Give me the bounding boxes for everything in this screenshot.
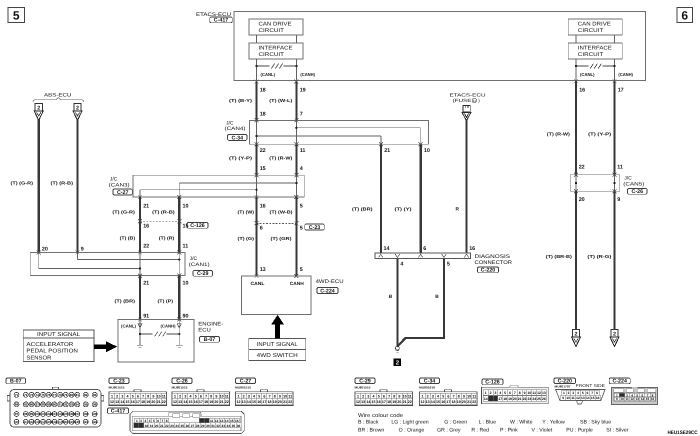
svg-text:11: 11 (473, 99, 477, 103)
svg-text:15: 15 (591, 396, 595, 400)
ABS-ECU bracket (33, 98, 84, 102)
svg-text:21: 21 (283, 400, 287, 404)
svg-text:11: 11 (210, 419, 214, 423)
svg-text:98: 98 (24, 412, 28, 416)
svg-text:15: 15 (260, 166, 266, 172)
svg-text:11: 11 (532, 391, 536, 395)
svg-text:21: 21 (518, 397, 522, 401)
svg-text:22: 22 (260, 148, 266, 154)
svg-text:1: 1 (563, 391, 565, 395)
svg-text:76: 76 (47, 393, 51, 397)
svg-text:6: 6 (681, 8, 688, 22)
wire CAN4 to CAN3 left (255, 144, 257, 175)
pin 19 ETACS (294, 80, 305, 94)
svg-text:15: 15 (183, 224, 189, 230)
svg-text:106: 106 (69, 412, 74, 416)
svg-text:R : Red: R : Red (471, 428, 489, 434)
svg-text:1: 1 (357, 394, 359, 398)
4WD switch arrow (271, 315, 284, 339)
page marker 5 (8, 8, 25, 23)
svg-text:18: 18 (452, 400, 456, 404)
svg-text:105: 105 (63, 412, 68, 416)
svg-text:9: 9 (616, 397, 618, 401)
svg-text:11: 11 (162, 394, 166, 398)
svg-text:2: 2 (116, 394, 118, 398)
svg-text:13: 13 (426, 400, 430, 404)
input signal accelerator box (23, 330, 94, 361)
node CANH engine (161, 324, 182, 329)
svg-text:115: 115 (46, 420, 51, 424)
svg-text:33: 33 (221, 424, 225, 428)
svg-text:8: 8 (274, 394, 276, 398)
drawing number (668, 430, 698, 436)
wire label (T)(G) (238, 236, 255, 241)
wire CAN4 pin21 to diagnosis pin14 (380, 144, 382, 253)
svg-text:2: 2 (179, 394, 181, 398)
svg-text:18: 18 (387, 400, 391, 404)
ABS-ECU label (44, 93, 72, 99)
svg-text:17: 17 (199, 400, 203, 404)
svg-text:17: 17 (136, 400, 140, 404)
page marker 6 (677, 8, 693, 23)
svg-text:(T) (R): (T) (R) (159, 236, 175, 241)
svg-text:13: 13 (260, 267, 266, 273)
svg-text:13: 13 (636, 397, 640, 401)
svg-text:SI : Silver: SI : Silver (606, 428, 628, 434)
svg-text:25: 25 (180, 424, 184, 428)
C-23 label tag (305, 224, 325, 231)
svg-text:90: 90 (53, 403, 57, 407)
junction connector CAN1 box (30, 253, 185, 276)
svg-text:101: 101 (40, 412, 45, 416)
svg-text:C-220: C-220 (481, 268, 495, 274)
pin 11 J/C CAN4 (300, 148, 306, 154)
svg-text:(T) (B): (T) (B) (120, 236, 136, 241)
svg-text:8: 8 (147, 394, 149, 398)
pin 11 J/C CAN1 (183, 244, 189, 250)
CAN3 box entry/exit marks (138, 173, 298, 199)
svg-text:20: 20 (397, 400, 401, 404)
svg-text:10: 10 (183, 203, 189, 209)
engine termination stubs (137, 345, 183, 347)
svg-text:4: 4 (437, 394, 439, 398)
CAN drive circuit box (right) (568, 19, 622, 35)
svg-text:95: 95 (84, 403, 88, 407)
wire label (T)(R-W) (269, 156, 293, 161)
svg-text:14: 14 (183, 400, 187, 404)
wire label (T)(G-R) mid (112, 209, 135, 214)
svg-text:8: 8 (458, 394, 460, 398)
wire CAN3 pin10 to C-126 pin15 (178, 197, 180, 221)
svg-text:5: 5 (13, 8, 20, 22)
svg-text:90: 90 (183, 313, 189, 319)
svg-text:(T) (G): (T) (G) (238, 236, 255, 241)
wires inside J/C CAN1 (39, 253, 181, 276)
svg-text:(T) (GR): (T) (GR) (271, 236, 293, 241)
svg-text:22: 22 (165, 424, 169, 428)
svg-text:114: 114 (41, 420, 46, 424)
svg-text:14: 14 (431, 400, 435, 404)
wire label (T)(R) (159, 236, 175, 241)
ground marker 2 (394, 358, 402, 366)
svg-text:18: 18 (268, 400, 272, 404)
svg-text:110: 110 (14, 420, 19, 424)
wire label (T)(R-G) (587, 254, 612, 259)
svg-text:21: 21 (220, 400, 224, 404)
4WD entry marks (255, 274, 299, 278)
pin 10 J/C CAN4 (424, 148, 430, 154)
svg-text:(T) (G-R): (T) (G-R) (11, 181, 34, 186)
wire label (T)(P) (158, 299, 174, 304)
junction connector CAN1 C-29 label (189, 256, 213, 277)
wire label (T)(BR) (115, 299, 136, 304)
svg-text:121: 121 (83, 420, 88, 424)
svg-text:7: 7 (388, 394, 390, 398)
fuse symbol (463, 105, 470, 112)
svg-text:C-27: C-27 (117, 190, 129, 196)
pin 6 C-23 (260, 226, 263, 232)
svg-text:16: 16 (143, 224, 149, 230)
svg-text:CIRCUIT: CIRCUIT (259, 52, 285, 58)
wire fuse to diagnosis pin16 (465, 121, 467, 253)
svg-text:C-29: C-29 (197, 271, 209, 277)
pin 5 C-23 (300, 226, 303, 232)
wire CAN3 pin16 to C-23 pin6 (255, 197, 257, 223)
wire colour code line 2 (358, 428, 629, 434)
svg-text:6: 6 (423, 246, 426, 252)
svg-text:10: 10 (283, 394, 287, 398)
svg-text:21: 21 (384, 148, 390, 154)
wire CAN5 pin20 down (575, 191, 577, 329)
svg-text:MU801515: MU801515 (172, 385, 188, 389)
svg-text:(T) (BR-B): (T) (BR-B) (546, 254, 573, 259)
svg-text:3: 3 (121, 394, 123, 398)
svg-text:2: 2 (362, 394, 364, 398)
wires inside J/C CAN5 (575, 175, 616, 192)
pin 16 C-126 (143, 224, 149, 230)
svg-text:108: 108 (83, 412, 88, 416)
svg-text:112: 112 (29, 420, 34, 424)
pin 9 J/C CAN5 (617, 197, 620, 203)
svg-text:22: 22 (162, 400, 166, 404)
svg-text:35: 35 (232, 424, 236, 428)
svg-text:4WD-ECU: 4WD-ECU (316, 279, 344, 285)
wire label (T)(Y) diag (395, 207, 413, 212)
svg-text:C-34: C-34 (232, 135, 244, 141)
svg-text:ETACS-ECU: ETACS-ECU (450, 92, 486, 97)
svg-text:3: 3 (248, 394, 250, 398)
svg-text:C-126: C-126 (190, 223, 204, 229)
svg-text:4: 4 (127, 394, 129, 398)
svg-text:5: 5 (153, 419, 155, 423)
svg-text:22: 22 (472, 400, 476, 404)
svg-text:19: 19 (209, 400, 213, 404)
wire CANL right to CAN5 (575, 81, 577, 175)
svg-text:21: 21 (157, 400, 161, 404)
svg-text:11: 11 (300, 148, 306, 154)
svg-text:3: 3 (367, 394, 369, 398)
node CANL (left) (261, 72, 276, 77)
svg-text:87: 87 (36, 403, 40, 407)
svg-text:117: 117 (58, 420, 63, 424)
connector C-126 pinout (482, 386, 549, 404)
svg-text:10: 10 (467, 394, 471, 398)
terminating resistor (left) (255, 64, 297, 69)
svg-text:91: 91 (58, 403, 62, 407)
svg-text:16: 16 (235, 419, 239, 423)
svg-text:1: 1 (485, 391, 487, 395)
svg-text:CANL: CANL (251, 281, 265, 286)
connector C-27 pinout (235, 378, 293, 406)
pin 15 J/C CAN3 (260, 166, 266, 172)
svg-text:72: 72 (24, 393, 28, 397)
svg-text:6: 6 (263, 394, 265, 398)
svg-text:14: 14 (247, 400, 251, 404)
svg-text:9: 9 (617, 197, 620, 203)
wire C-23 pin5 to 4WD pin5 (295, 223, 297, 276)
svg-text:34: 34 (227, 424, 231, 428)
wire label R (456, 207, 460, 213)
node CANH 4WD (290, 281, 305, 286)
svg-text:22: 22 (408, 400, 412, 404)
connector B-07 label (6, 378, 26, 385)
svg-text:11: 11 (625, 397, 629, 401)
svg-text:16: 16 (596, 396, 600, 400)
svg-text:2: 2 (76, 105, 79, 111)
svg-text:16: 16 (257, 400, 261, 404)
svg-text:21: 21 (143, 280, 149, 286)
svg-text:6: 6 (260, 226, 263, 232)
svg-text:5: 5 (195, 394, 197, 398)
svg-text:(T) (P): (T) (P) (158, 299, 174, 304)
svg-text:16: 16 (260, 203, 266, 209)
svg-text:7: 7 (162, 419, 164, 423)
svg-text:C-224: C-224 (320, 288, 334, 294)
engine ECU internal wires (139, 320, 181, 346)
connector C-23 pinout (109, 378, 167, 406)
svg-text:4: 4 (400, 261, 403, 267)
svg-text:14: 14 (641, 397, 645, 401)
svg-text:22: 22 (579, 165, 585, 171)
svg-text:18: 18 (503, 397, 507, 401)
svg-text:4: 4 (300, 166, 303, 172)
svg-text:28: 28 (196, 424, 200, 428)
svg-text:11: 11 (571, 396, 575, 400)
svg-text:LG : Light green: LG : Light green (391, 419, 428, 425)
svg-text:11: 11 (288, 394, 292, 398)
svg-text:10: 10 (403, 394, 407, 398)
svg-text:80: 80 (70, 393, 74, 397)
svg-text:6: 6 (137, 394, 139, 398)
svg-text:29: 29 (201, 424, 205, 428)
svg-text:111: 111 (23, 420, 28, 424)
svg-text:MU801515: MU801515 (109, 385, 125, 389)
svg-text:INPUT SIGNAL: INPUT SIGNAL (37, 332, 80, 338)
svg-text:18: 18 (145, 424, 149, 428)
svg-text:C-224: C-224 (612, 379, 626, 385)
wire C-23 pin6 to 4WD pin13 (255, 223, 257, 276)
svg-text:SENSOR: SENSOR (26, 356, 51, 362)
svg-text:19: 19 (150, 424, 154, 428)
CAN4 box entry/exit marks (255, 118, 423, 146)
svg-text:7: 7 (591, 391, 593, 395)
svg-text:91: 91 (143, 313, 149, 319)
wire label (T)(GR) (271, 236, 293, 241)
svg-text:(T) (Y-P): (T) (Y-P) (229, 156, 253, 161)
svg-text:4: 4 (499, 391, 501, 395)
connector C-126 in-line junction (138, 219, 181, 223)
wires inside J/C CAN4 (255, 120, 420, 144)
svg-text:1: 1 (421, 394, 423, 398)
svg-text:30: 30 (206, 424, 210, 428)
svg-text:2: 2 (568, 391, 570, 395)
svg-text:C-417: C-417 (111, 409, 125, 415)
svg-text:C-29: C-29 (359, 379, 371, 385)
svg-text:(T) (Y): (T) (Y) (395, 207, 413, 212)
svg-text:CIRCUIT: CIRCUIT (259, 28, 285, 34)
svg-text:32: 32 (216, 424, 220, 428)
svg-text:16: 16 (579, 88, 585, 94)
svg-text:8: 8 (393, 394, 395, 398)
svg-text:20: 20 (278, 400, 282, 404)
svg-text:10: 10 (566, 396, 570, 400)
svg-text:4: 4 (149, 419, 151, 423)
fuse shield symbol (462, 113, 471, 121)
svg-text:102: 102 (46, 412, 51, 416)
svg-text:12: 12 (576, 396, 580, 400)
4WD-ECU label C-224 (316, 279, 344, 294)
svg-text:20: 20 (155, 424, 159, 428)
svg-text:6: 6 (383, 394, 385, 398)
ground eyelet terminal (396, 346, 400, 352)
svg-text:6: 6 (447, 394, 449, 398)
node CANL engine (121, 324, 142, 329)
svg-text:97: 97 (15, 412, 19, 416)
svg-text:86: 86 (30, 403, 34, 407)
svg-text:120: 120 (75, 420, 80, 424)
svg-text:4: 4 (253, 394, 255, 398)
svg-text:12: 12 (420, 400, 424, 404)
svg-text:5: 5 (582, 391, 584, 395)
svg-text:16: 16 (131, 400, 135, 404)
svg-text:22: 22 (523, 397, 527, 401)
svg-text:5: 5 (258, 394, 260, 398)
svg-text:10: 10 (527, 391, 531, 395)
svg-text:INTERFACE: INTERFACE (259, 46, 293, 52)
svg-text:1: 1 (111, 394, 113, 398)
svg-text:9: 9 (215, 394, 217, 398)
engine ECU box (118, 320, 194, 363)
input signal 4WD switch box (249, 339, 306, 361)
svg-text:3: 3 (145, 419, 147, 423)
svg-text:Wire colour code: Wire colour code (358, 413, 403, 419)
svg-text:21: 21 (160, 424, 164, 428)
svg-text:SB : Sky blue: SB : Sky blue (580, 419, 611, 425)
connector C-417 pinout (130, 411, 244, 433)
wire CAN1 pin21 to engine pin91 (139, 276, 141, 320)
svg-text:1: 1 (237, 394, 239, 398)
node CANH (left) (300, 72, 315, 77)
svg-text:5: 5 (300, 267, 303, 273)
svg-text:5: 5 (300, 226, 303, 232)
svg-text:J/C: J/C (190, 256, 198, 262)
pin 22 J/C CAN1 (143, 244, 149, 250)
svg-text:93: 93 (70, 403, 74, 407)
svg-text:22: 22 (143, 244, 149, 250)
svg-text:20: 20 (42, 246, 48, 252)
front side note (576, 383, 605, 388)
svg-text:11: 11 (408, 394, 412, 398)
svg-text:20: 20 (579, 197, 585, 203)
svg-text:5: 5 (442, 394, 444, 398)
svg-text:FRONT SIDE: FRONT SIDE (576, 383, 605, 388)
svg-text:11: 11 (225, 394, 229, 398)
svg-text:C-27: C-27 (240, 379, 252, 385)
4WD-ECU box (242, 276, 312, 315)
pin 18 J/C CAN4 (260, 112, 266, 118)
svg-text:L : Blue: L : Blue (479, 419, 497, 425)
terminating resistor (right) (575, 64, 616, 69)
svg-text:INTERFACE: INTERFACE (578, 46, 612, 52)
wire label (T)(W-L) (269, 98, 293, 103)
svg-text:4WD SWITCH: 4WD SWITCH (257, 353, 298, 359)
svg-text:78: 78 (58, 393, 62, 397)
svg-text:C-26: C-26 (176, 379, 188, 385)
svg-text:(CAN1): (CAN1) (189, 262, 210, 268)
svg-text:21: 21 (467, 400, 471, 404)
svg-text:(CANH): (CANH) (300, 72, 315, 77)
svg-text:14: 14 (484, 397, 488, 401)
junction connector CAN4 box (249, 120, 428, 144)
wire ABS right to CAN1 pin9 (76, 120, 78, 253)
svg-text:83: 83 (93, 393, 97, 397)
svg-text:15: 15 (436, 400, 440, 404)
svg-text:CANH: CANH (290, 281, 305, 286)
svg-text:99: 99 (30, 412, 34, 416)
svg-text:(T) (W-B): (T) (W-B) (270, 209, 294, 214)
svg-text:5: 5 (447, 261, 450, 267)
pin 10 J/C CAN3 (183, 203, 189, 209)
wire CANL ETACS to J/C CAN4 (255, 82, 257, 121)
svg-text:21: 21 (403, 400, 407, 404)
svg-text:8: 8 (210, 394, 212, 398)
wire C-126 pin15 to CAN1 pin11 (178, 221, 180, 252)
wire label (T)(R-B) mid (152, 209, 175, 214)
svg-text:7: 7 (205, 394, 207, 398)
junction connector CAN3 box (133, 175, 304, 197)
wire label (T)(R-W) right (547, 132, 571, 137)
svg-text:2: 2 (427, 394, 429, 398)
svg-text:(CANH): (CANH) (618, 72, 633, 77)
svg-text:BR : Brown: BR : Brown (358, 428, 384, 434)
svg-text:2: 2 (575, 332, 578, 338)
ABS-ECU shield connector left (34, 104, 43, 121)
svg-text:(T) (R-W): (T) (R-W) (269, 156, 293, 161)
svg-text:9: 9 (398, 394, 400, 398)
svg-text:104: 104 (58, 412, 63, 416)
svg-text:14: 14 (384, 246, 390, 252)
svg-text:17: 17 (498, 397, 502, 401)
svg-text:113: 113 (35, 420, 40, 424)
svg-text:4: 4 (190, 394, 192, 398)
svg-text:9: 9 (463, 394, 465, 398)
svg-text:(CAN3): (CAN3) (109, 182, 130, 188)
svg-text:7: 7 (514, 391, 516, 395)
wire CAN4 pin10 to diagnosis pin6 (420, 144, 422, 253)
svg-text:R: R (456, 207, 460, 213)
junction connector CAN5 C-26 label (623, 176, 647, 196)
svg-text:2: 2 (490, 391, 492, 395)
